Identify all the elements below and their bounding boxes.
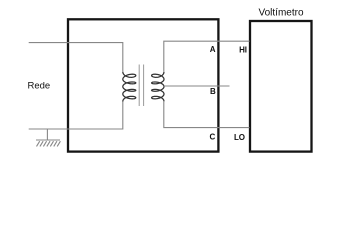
transformer T1 primary winding	[123, 72, 136, 102]
transformer enclosure box	[68, 19, 218, 151]
ground	[36, 129, 60, 146]
svg-text:Rede: Rede	[28, 81, 51, 92]
wire node B stub	[164, 85, 230, 87]
wire node C to voltmeter LO	[164, 101, 250, 128]
svg-text:Voltímetro: Voltímetro	[258, 8, 303, 19]
wire node A to voltmeter HI	[164, 41, 250, 72]
svg-text:B: B	[210, 87, 216, 96]
voltmeter box	[250, 21, 312, 152]
transformer core	[139, 65, 143, 107]
svg-text:HI: HI	[239, 45, 247, 54]
svg-text:LO: LO	[234, 133, 245, 142]
svg-text:A: A	[210, 45, 216, 54]
wire mains top	[29, 43, 123, 72]
wire mains bottom	[29, 101, 123, 129]
transformer secondary winding	[152, 72, 164, 102]
svg-text:C: C	[209, 132, 215, 141]
